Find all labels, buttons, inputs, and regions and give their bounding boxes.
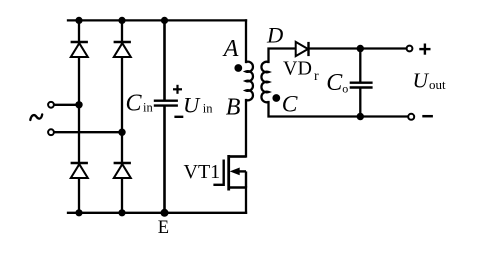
- channel bar: [227, 155, 230, 191]
- wire bottom negative rail: [68, 212, 246, 214]
- junction dot Co top: [357, 45, 364, 52]
- diode VDr: [296, 42, 309, 56]
- svg-text:C: C: [126, 91, 143, 117]
- wire Co leg upper: [359, 49, 361, 83]
- junction dot top rail Cin leg: [161, 17, 168, 24]
- wire AC upper terminal to left leg: [55, 104, 80, 106]
- MOSFET body arrow head: [230, 168, 240, 176]
- svg-text:out: out: [429, 77, 446, 92]
- wire secondary top to diode anode: [269, 49, 296, 63]
- capacitor Cin plates: [154, 101, 178, 106]
- wire primary feed from top rail: [245, 20, 247, 62]
- junction dot bottom rail left leg: [75, 209, 82, 216]
- transformer T1 primary winding: [246, 62, 253, 101]
- transformer T1 secondary winding: [261, 62, 268, 103]
- primary polarity dot: [234, 64, 242, 72]
- wire bridge left leg: [78, 20, 80, 212]
- wire primary bottom to MOSFET drain: [229, 100, 246, 157]
- output minus terminal: [408, 114, 414, 120]
- junction dot AC lower: [118, 129, 125, 136]
- AC upper terminal: [48, 102, 54, 108]
- svg-text:C: C: [282, 91, 298, 117]
- wire AC lower terminal to right leg: [55, 131, 123, 133]
- svg-text:D: D: [266, 23, 283, 48]
- svg-text:in: in: [143, 101, 153, 115]
- gate lead: [213, 184, 223, 186]
- svg-text:A: A: [222, 36, 239, 62]
- svg-text:B: B: [226, 94, 241, 120]
- svg-text:r: r: [314, 69, 319, 84]
- wire bridge right leg: [121, 20, 123, 212]
- label Cin plus: [173, 85, 182, 94]
- wire top positive rail: [68, 19, 246, 21]
- drain lead: [229, 155, 246, 157]
- label output minus: [422, 115, 433, 118]
- junction dot bottom rail right leg: [118, 209, 125, 216]
- svg-text:U: U: [413, 69, 430, 93]
- label Cin minus: [174, 116, 183, 118]
- junction dot top rail right leg: [118, 17, 125, 24]
- junction dot Co bottom: [357, 113, 364, 120]
- junction dot bottom rail Cin leg (node E): [161, 209, 169, 217]
- source lead: [229, 186, 246, 188]
- output plus terminal: [407, 46, 413, 52]
- svg-text:o: o: [342, 82, 348, 96]
- wire Co leg lower: [359, 88, 361, 117]
- body connection with arrow: [245, 171, 247, 187]
- gate bar: [222, 160, 224, 187]
- diode D1 bridge upper-left: [71, 42, 88, 57]
- wire Cin leg lower: [163, 106, 166, 213]
- diode D2 bridge upper-right: [114, 42, 131, 57]
- svg-text:VD: VD: [283, 58, 312, 80]
- wire diode cathode to plus terminal: [309, 47, 407, 49]
- AC source tilde symbol: [30, 114, 42, 120]
- svg-text:C: C: [326, 70, 343, 96]
- junction dot top rail left leg: [75, 17, 82, 24]
- svg-text:U: U: [183, 92, 201, 117]
- svg-text:E: E: [158, 218, 169, 238]
- wire Cin leg upper: [163, 20, 166, 100]
- junction dot AC upper: [75, 101, 82, 108]
- wire secondary bottom: [269, 102, 408, 117]
- svg-text:in: in: [203, 102, 213, 116]
- MOSFET VT1: [213, 155, 246, 191]
- secondary polarity dot: [272, 94, 280, 102]
- svg-text:VT1: VT1: [184, 161, 221, 183]
- capacitor Co plates: [350, 83, 373, 88]
- diode D3 bridge lower-left: [71, 163, 88, 178]
- diode D4 bridge lower-right: [114, 163, 131, 178]
- label output plus: [419, 44, 430, 55]
- wire MOSFET source to bottom rail: [245, 188, 247, 213]
- AC lower terminal: [48, 129, 54, 135]
